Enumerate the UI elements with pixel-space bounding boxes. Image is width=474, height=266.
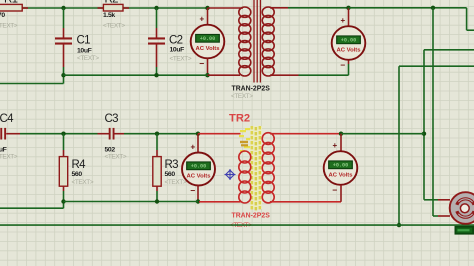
svg-text:−: − (199, 59, 204, 69)
node junction VM2 plus (346, 6, 350, 10)
svg-text:+0.00: +0.00 (341, 37, 357, 43)
voltmeter VM4 body (324, 151, 358, 185)
svg-text:+: + (190, 142, 195, 151)
svg-text:+: + (332, 141, 337, 150)
svg-text:<TEXT>: <TEXT> (0, 153, 18, 160)
svg-text:TRAN-2P2S: TRAN-2P2S (232, 213, 271, 220)
wire long bottom rail (0, 224, 474, 226)
svg-text:560: 560 (165, 171, 176, 178)
svg-text:+0.00: +0.00 (200, 36, 216, 42)
node junction VM4 plus (339, 132, 343, 136)
wire top section bottom rail (64, 74, 208, 76)
svg-text:R1: R1 (4, 0, 18, 6)
resistor R3 (156, 134, 158, 150)
node junction VM3 minus (196, 199, 200, 203)
wire lower rail C3 to VM3 (124, 133, 198, 135)
wire top rail right segment (349, 7, 467, 9)
voltmeter VM3 LCD display (186, 161, 211, 170)
transformer T1 primary winding (239, 7, 251, 17)
wire lower bottom rail (64, 201, 199, 203)
wire top section bottom rail (left, stepped) (0, 83, 64, 85)
voltmeter VM1 LCD display (195, 34, 220, 43)
svg-text:C4: C4 (0, 113, 14, 125)
node junction R4 bottom (61, 199, 65, 203)
transformer TR2 primary winding (selected red) (239, 151, 251, 163)
wire VM4 plus wire to right vertical (341, 133, 424, 135)
motor M1 commutator arcs (455, 197, 474, 205)
transformer TR2 secondary winding (selected red) (262, 133, 274, 145)
wire C4 right lead (6, 133, 20, 135)
resistor R1 (0, 4, 22, 11)
svg-text:TR2: TR2 (229, 113, 250, 125)
svg-text:+0.00: +0.00 (191, 163, 207, 169)
motor M1 body (450, 192, 474, 224)
resistor R4 (63, 134, 65, 150)
svg-text:R3: R3 (165, 159, 179, 171)
wire T1 secondary bottom lead (270, 74, 299, 76)
wire transformer T1 secondary top lead (270, 7, 288, 9)
wire C2 bottom stub (156, 44, 158, 67)
node junction R4 top (61, 132, 65, 136)
wire right horizontal y66 (399, 65, 474, 67)
wire VM2 minus stub (348, 64, 350, 75)
svg-text:R4: R4 (72, 159, 87, 171)
svg-text:AC Volts: AC Volts (186, 174, 211, 180)
svg-text:+: + (199, 15, 204, 24)
wire lower section bottom rail (left, stepped) (0, 207, 64, 209)
svg-text:10uF: 10uF (0, 146, 7, 153)
svg-text:+0.00: +0.00 (333, 162, 349, 168)
svg-text:AC Volts: AC Volts (328, 173, 353, 179)
capacitor C4 (0, 128, 2, 140)
wire vertical x424 to motor top (423, 50, 425, 200)
svg-text:10uF: 10uF (77, 48, 92, 55)
resistor R2 (103, 4, 123, 11)
pin stub R2 left (98, 7, 104, 9)
wire lower rail C4 to C3 (20, 133, 98, 135)
pin stub R2 right (123, 7, 129, 9)
wire VM4 minus stub (340, 185, 342, 202)
svg-text:<TEXT>: <TEXT> (103, 22, 125, 29)
svg-text:AC Volts: AC Volts (195, 46, 220, 52)
wire transformer T1 primary top lead (208, 7, 244, 9)
svg-text:10uF: 10uF (170, 46, 185, 53)
svg-text:1.5k: 1.5k (103, 12, 115, 19)
wire T1 primary bottom lead (208, 74, 241, 76)
svg-text:470: 470 (0, 12, 5, 19)
transformer TR2 core highlight (yellow dashes) (250, 126, 262, 209)
svg-text:+: + (340, 16, 345, 25)
svg-text:<TEXT>: <TEXT> (77, 55, 99, 62)
wire right horizontal y50 (424, 49, 474, 51)
svg-text:TRAN-2P2S: TRAN-2P2S (232, 85, 271, 92)
node junction C2 bottom (154, 73, 158, 77)
capacitor C2 (148, 37, 165, 39)
svg-text:<TEXT>: <TEXT> (231, 93, 253, 100)
svg-text:<TEXT>: <TEXT> (165, 179, 187, 186)
transformer T1 core (253, 0, 255, 83)
voltmeter VM2 LCD display (336, 35, 361, 44)
node junction C1 bottom (61, 73, 65, 77)
node junction VM1 minus (205, 73, 209, 77)
wire VM3 minus stub (197, 186, 199, 202)
node junction right vertical (431, 6, 435, 10)
voltmeter VM3 body (182, 153, 215, 186)
voltmeter VM4 LCD display (328, 160, 353, 169)
svg-text:R2: R2 (105, 0, 119, 6)
node junction R3 bottom (155, 199, 159, 203)
voltmeter VM2 body (332, 26, 366, 60)
wire top rail left segment (0, 7, 208, 9)
wire VM1 plus stub (207, 8, 209, 25)
wire right vertical net to motor bottom (432, 8, 434, 216)
wire TR2 secondary bottom lead to VM4 (selected) (270, 201, 341, 203)
wire vertical x399 (398, 66, 400, 225)
svg-text:C3: C3 (105, 113, 119, 125)
wire VM2 plus stub (348, 8, 350, 27)
transformer TR2 primary winding highlight dashes (240, 130, 246, 132)
node junction x399 bottom rail (397, 223, 401, 227)
wire TR2 secondary top lead to VM4 (selected) (270, 133, 341, 135)
svg-text:<TEXT>: <TEXT> (72, 179, 94, 186)
wire TR2 primary top lead (selected) (198, 133, 241, 135)
wire TR2 primary bottom lead (selected) (199, 201, 241, 203)
wire C1 top stub (63, 8, 65, 28)
voltmeter VM1 body (191, 25, 225, 59)
transformer TR2 origin marker (225, 169, 236, 180)
node junction VM3 plus (196, 132, 200, 136)
svg-text:<TEXT>: <TEXT> (170, 56, 192, 63)
svg-text:−: − (190, 186, 195, 196)
transformer T1 secondary winding (262, 7, 274, 17)
motor pin 2 (438, 215, 450, 217)
motor pin 1 (438, 199, 450, 201)
svg-text:AC Volts: AC Volts (336, 48, 361, 54)
wire C2 top stub (156, 8, 158, 28)
node junction voltmeter VM1 plus (205, 6, 209, 10)
svg-text:−: − (332, 185, 337, 195)
svg-text:502: 502 (105, 146, 116, 153)
wire C1 bottom stub (63, 44, 65, 67)
svg-text:−: − (340, 60, 345, 70)
svg-text:<TEXT>: <TEXT> (0, 22, 18, 29)
capacitor C3 right lead (114, 133, 124, 135)
wire top-right corner to edge (466, 8, 468, 30)
capacitor C1 (55, 37, 72, 39)
wire VM3 plus stub (197, 134, 199, 153)
svg-text:C1: C1 (77, 35, 91, 47)
motor M1 hub (460, 204, 469, 213)
capacitor C3 left lead (98, 133, 110, 135)
pin stub R1 right (22, 7, 28, 9)
wire VM4 plus stub (340, 134, 342, 151)
node junction C2 top (154, 6, 158, 10)
node junction C1 top (61, 6, 65, 10)
node junction x424 with VM4 wire (422, 132, 426, 136)
svg-text:C2: C2 (169, 35, 183, 47)
wire VM1 minus stub (207, 58, 209, 75)
svg-text:560: 560 (72, 171, 83, 178)
node junction R3 top (155, 132, 159, 136)
capacitor C3 (109, 128, 111, 140)
motor M1 rpm display (455, 226, 474, 235)
svg-text:<TEXT>: <TEXT> (105, 153, 127, 160)
